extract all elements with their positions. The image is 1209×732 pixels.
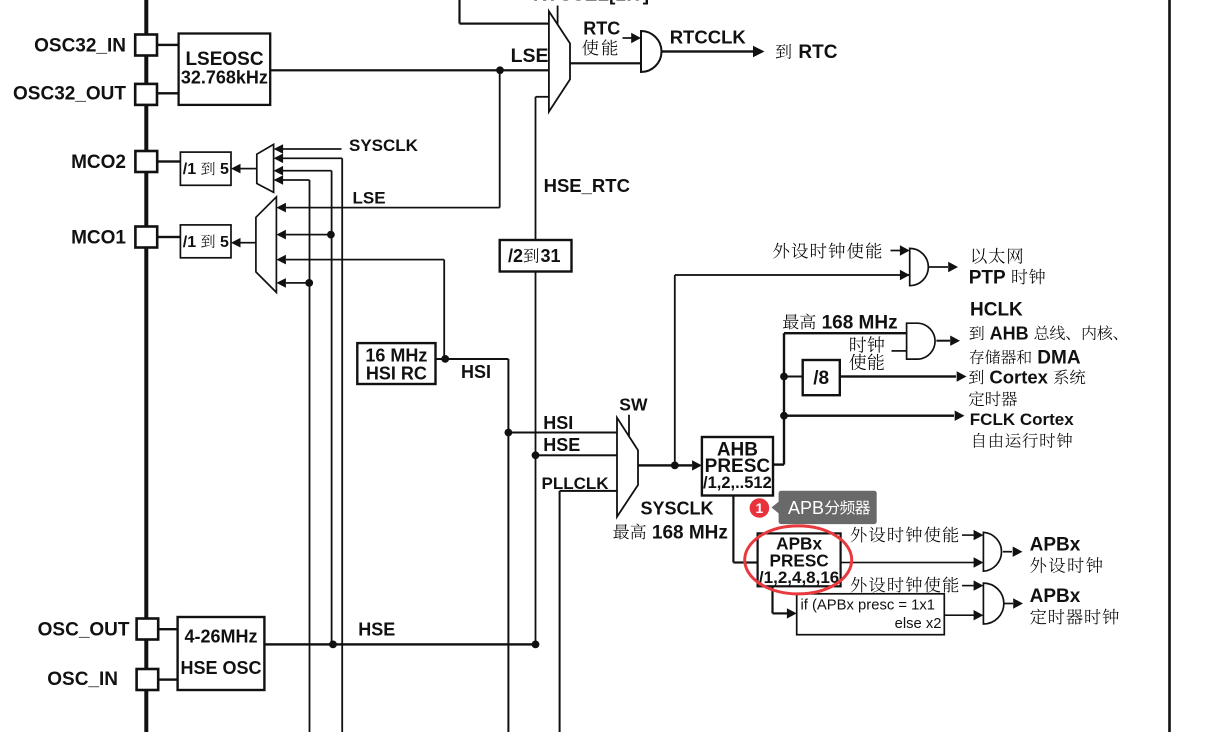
pin MCO1 xyxy=(135,227,157,248)
arrow if output into gate xyxy=(974,610,984,620)
gate AND ethernet PTP clock gate xyxy=(910,248,929,285)
arrow APBx peripheral clock xyxy=(1013,547,1023,557)
wire HSE_RTC step xyxy=(536,96,550,98)
svg-text:HSI: HSI xyxy=(461,362,491,382)
svg-text:Cortex: Cortex xyxy=(984,367,1053,388)
label 最高 168 MHz at SW xyxy=(613,524,629,539)
oscillator 16 MHz HSI RC xyxy=(357,343,435,384)
svg-text:HSE_RTC: HSE_RTC xyxy=(544,175,630,196)
arrow MCO1 input 2 xyxy=(276,230,286,240)
wire MCO2 input 3 xyxy=(283,170,332,172)
label 使能 at HCLK gate xyxy=(849,354,866,370)
svg-text:HSI RC: HSI RC xyxy=(366,363,427,383)
wire HSE line xyxy=(264,643,535,645)
wire AHB output xyxy=(773,463,784,465)
divider /8 cortex systick xyxy=(803,360,840,395)
svg-text:HSE OSC: HSE OSC xyxy=(180,658,261,678)
node HSI junction at divider xyxy=(441,355,449,363)
arrow MCO1 input 3 xyxy=(276,255,286,265)
svg-text:32.768kHz: 32.768kHz xyxy=(181,68,268,88)
node MCO1 input2 junction xyxy=(327,231,335,239)
svg-text:FCLK Cortex: FCLK Cortex xyxy=(970,410,1074,429)
svg-text:OSC_OUT: OSC_OUT xyxy=(38,619,130,640)
arrow APBx timer clock xyxy=(1013,598,1023,608)
wire top feed horizontal xyxy=(460,23,550,25)
wire rail A xyxy=(309,180,311,732)
prescaler AHB PRESC xyxy=(702,437,773,496)
wire PTP enable stub xyxy=(891,250,902,252)
wire MCO1 input 3 xyxy=(286,259,444,261)
annotation marker red circle 1 xyxy=(750,498,770,518)
svg-text:/2: /2 xyxy=(508,246,523,266)
arrow SYSCLK MCO2 xyxy=(274,144,284,154)
svg-text:SYSCLK: SYSCLK xyxy=(349,136,419,155)
arrow SYSCLK into AHB PRESC xyxy=(692,460,702,470)
svg-text:if (APBx presc = 1x1: if (APBx presc = 1x1 xyxy=(801,598,935,614)
arrow APBx clock into gate xyxy=(974,557,984,567)
wire if box output xyxy=(944,614,974,616)
label 使能 of RTC enable xyxy=(582,40,598,56)
arrow MCO2 input 4 xyxy=(274,175,284,185)
svg-text:5: 5 xyxy=(216,161,229,178)
wire rail C xyxy=(341,158,343,732)
wire MCO1 stub xyxy=(158,236,180,238)
wire HSI output xyxy=(436,358,509,360)
svg-text:/1,2,..512: /1,2,..512 xyxy=(703,474,772,492)
wire HSI into SW mux xyxy=(508,432,617,434)
wire AHB to APBx horizontal xyxy=(733,561,757,563)
wire LSE into MCO1 mux xyxy=(286,207,500,209)
node HSE vertical junction xyxy=(532,641,540,649)
svg-text:168 MHz: 168 MHz xyxy=(647,522,728,543)
wire RTCSEL select stub xyxy=(557,6,559,25)
divider /1 到 5 for MCO1 xyxy=(180,225,231,258)
oscillator 4-26 MHz HSE OSC xyxy=(178,617,265,690)
wire SYSCLK from SW mux xyxy=(638,464,692,466)
wire RTC mux output xyxy=(570,62,641,64)
svg-text:LSE: LSE xyxy=(353,189,386,208)
arrow APBx enable lower xyxy=(974,580,984,590)
wire HSE into SW mux xyxy=(536,454,618,456)
node SYSCLK junction xyxy=(671,462,679,470)
wire /8 output to cortex timer xyxy=(840,375,956,377)
svg-text:else x2: else x2 xyxy=(895,616,942,632)
wire top feed vertical xyxy=(458,0,460,24)
wire APBx to if box horizontal xyxy=(773,612,788,614)
wire LSE from LSEOSC to RTC mux xyxy=(270,69,549,71)
arrow HCLK output xyxy=(950,336,960,346)
svg-text:RTC: RTC xyxy=(793,42,838,63)
wire HSE vertical rail xyxy=(535,272,537,645)
svg-text:APBx: APBx xyxy=(1030,535,1081,556)
node /8 branch junction xyxy=(780,373,788,381)
wire HCLK gate output xyxy=(936,340,950,342)
wire APBx gate output xyxy=(1003,551,1012,553)
arrow MCO1 output into divider xyxy=(231,238,241,248)
pin MCO2 xyxy=(135,151,157,172)
wire MCO1 mux output xyxy=(239,242,256,244)
arrow PTP enable into gate xyxy=(900,245,910,255)
wire OSC_OUT stub xyxy=(158,628,177,630)
svg-text:SW: SW xyxy=(619,394,648,414)
svg-text:16 MHz: 16 MHz xyxy=(365,345,427,365)
wire SYSCLK up to PTP gate xyxy=(674,275,676,465)
svg-text:/1,2,4,8,16: /1,2,4,8,16 xyxy=(759,568,839,587)
label 最高 168 MHz at HCLK xyxy=(783,314,799,329)
arrow LSE MCO1 xyxy=(276,203,286,213)
label 到 RTC xyxy=(776,44,791,59)
wire RTC enable stub xyxy=(623,37,634,39)
arrow PTP clock into gate xyxy=(900,270,910,280)
mux MCO1 select xyxy=(256,197,277,293)
svg-text:AHB: AHB xyxy=(985,323,1034,343)
svg-text:HSE: HSE xyxy=(358,620,395,640)
arrow PTP output xyxy=(948,262,958,272)
svg-text:1: 1 xyxy=(756,500,764,516)
svg-text:DMA: DMA xyxy=(1032,348,1081,369)
wire PLLCLK into SW mux xyxy=(560,490,617,492)
svg-text:PLLCLK: PLLCLK xyxy=(542,474,610,493)
wire FCLK line xyxy=(784,415,954,417)
svg-text:MCO1: MCO1 xyxy=(71,228,126,249)
label 定时器时钟 xyxy=(1030,609,1046,625)
wire HSE_RTC vertical upper xyxy=(535,97,537,240)
prescaler APBx PRESC xyxy=(758,533,841,586)
wire LSE vertical drop xyxy=(499,70,501,207)
arrow MCO2 input 3 xyxy=(274,166,284,176)
svg-text:31: 31 xyxy=(541,246,561,266)
annotation tooltip CJK text xyxy=(825,500,839,514)
arrow into if box xyxy=(787,608,797,618)
svg-text:168 MHz: 168 MHz xyxy=(816,312,897,333)
wire OSC32_OUT stub xyxy=(157,92,179,94)
conditional multiplier if box xyxy=(797,594,945,635)
wire MCO2 stub xyxy=(157,160,180,162)
svg-text:RTC: RTC xyxy=(583,18,620,38)
svg-text:/1: /1 xyxy=(183,234,201,251)
node LSE junction xyxy=(496,66,504,74)
pin OSC32_OUT xyxy=(135,84,157,105)
arrow MCO1 input 4 xyxy=(276,278,286,288)
label 定时器 xyxy=(969,391,984,406)
wire APBx enable stub upper xyxy=(962,534,974,536)
arrow RTC enable into gate xyxy=(631,33,641,43)
wire /8 branch xyxy=(784,376,803,378)
label 自由运行时钟 xyxy=(974,433,985,448)
node MCO1 input4 junction xyxy=(305,279,313,287)
wire APBx output xyxy=(841,562,974,564)
svg-text:OSC32_OUT: OSC32_OUT xyxy=(13,84,126,105)
wire MCO2 input 2 xyxy=(283,157,342,159)
label 到 Cortex 系统 xyxy=(969,370,984,385)
label 存储器和 DMA xyxy=(970,350,984,365)
svg-text:4-26MHz: 4-26MHz xyxy=(184,627,257,647)
wire MCO2 mux output xyxy=(239,168,257,170)
svg-text:5: 5 xyxy=(216,234,229,251)
svg-text:APBx: APBx xyxy=(1030,586,1081,607)
wire HCLK line to gate xyxy=(784,332,907,334)
svg-text:MCO2: MCO2 xyxy=(71,152,126,173)
label 外设时钟使能 APBx upper xyxy=(851,527,867,543)
label 时钟 at HCLK gate xyxy=(850,337,866,353)
mux SW system clock select xyxy=(617,418,638,517)
wire HSI vertical rail xyxy=(507,359,509,732)
oscillator LSEOSC xyxy=(179,34,271,105)
wire SYSCLK into MCO2 mux xyxy=(283,148,342,150)
label 以太网 xyxy=(972,248,986,263)
wire MCO1 input 2 xyxy=(286,234,331,236)
node HSI to SW junction xyxy=(505,429,513,437)
wire RTCCLK output xyxy=(661,50,754,52)
svg-text:OSC32_IN: OSC32_IN xyxy=(34,35,126,56)
node HSE rail B junction xyxy=(329,641,337,649)
arrow MCO2 input 2 xyxy=(274,154,284,164)
wire APBx enable stub lower xyxy=(962,585,974,587)
pin OSC_IN xyxy=(137,669,159,690)
wire rail B HSE xyxy=(331,171,333,645)
wire SW select stub xyxy=(628,415,630,437)
wire MCO2 input 4 xyxy=(283,179,310,181)
svg-text:RTCCLK: RTCCLK xyxy=(670,27,747,48)
wire MCO1 input 4 xyxy=(286,282,309,284)
arrow FCLK xyxy=(955,411,965,421)
wire APBx timer gate output xyxy=(1004,603,1013,605)
wire OSC32_IN stub xyxy=(157,44,179,46)
annotation tooltip APB分频器 xyxy=(779,491,877,524)
node HSE to SW junction xyxy=(532,451,540,459)
wire APBx to if box vertical xyxy=(771,586,773,613)
mux RTC source select xyxy=(549,11,570,112)
svg-text:RTCSEL[1:0]: RTCSEL[1:0] xyxy=(533,0,649,6)
pin OSC32_IN xyxy=(135,35,157,56)
svg-text:HSI: HSI xyxy=(543,413,573,433)
mux MCO2 select xyxy=(257,144,274,192)
wire PLLCLK vertical rail xyxy=(559,491,561,732)
gate AND HCLK clock gate xyxy=(907,323,935,359)
svg-text:/1: /1 xyxy=(183,161,201,178)
gate AND RTC clock gate xyxy=(641,31,662,72)
divider /2 到 31 for RTC xyxy=(500,240,572,272)
gate AND APBx peripheral clock gate xyxy=(983,532,1001,571)
arrow MCO2 output into divider xyxy=(231,164,241,174)
pin OSC_OUT xyxy=(137,619,159,640)
svg-text:/8: /8 xyxy=(813,368,829,389)
svg-text:HSE: HSE xyxy=(543,435,580,455)
wire PTP gate output xyxy=(928,266,948,268)
wire right boundary xyxy=(1168,0,1171,732)
wire HCLK enable stub xyxy=(892,350,907,352)
arrow APBx enable upper xyxy=(974,530,984,540)
divider /1 到 5 for MCO2 xyxy=(180,152,231,185)
label 外设时钟使能 APBx lower xyxy=(851,577,867,593)
gate AND APBx timer clock gate xyxy=(983,583,1003,624)
svg-text:OSC_IN: OSC_IN xyxy=(47,669,118,690)
svg-text:LSE: LSE xyxy=(511,45,549,67)
wire HCLK vertical xyxy=(783,333,785,464)
label 外设时钟使能 PTP xyxy=(773,243,789,259)
label 外设时钟 out xyxy=(1030,557,1046,573)
wire rail D HSI xyxy=(443,260,445,359)
annotation red ellipse around APBx PRESC xyxy=(745,526,852,594)
wire left device boundary trunk xyxy=(144,0,148,732)
svg-text:HCLK: HCLK xyxy=(970,299,1023,320)
arrow RTCCLK to RTC xyxy=(753,46,765,58)
svg-text:APB: APB xyxy=(788,498,824,518)
svg-text:PTP: PTP xyxy=(969,267,1011,288)
wire OSC_IN stub xyxy=(158,678,177,680)
node FCLK branch junction xyxy=(780,412,788,420)
wire SYSCLK to PTP gate input xyxy=(675,274,910,276)
svg-text:SYSCLK: SYSCLK xyxy=(641,498,714,518)
arrow cortex system timer xyxy=(957,371,967,381)
label 到 AHB 总线、内核、 xyxy=(969,326,983,340)
wire AHB to APBx vertical xyxy=(732,496,734,563)
